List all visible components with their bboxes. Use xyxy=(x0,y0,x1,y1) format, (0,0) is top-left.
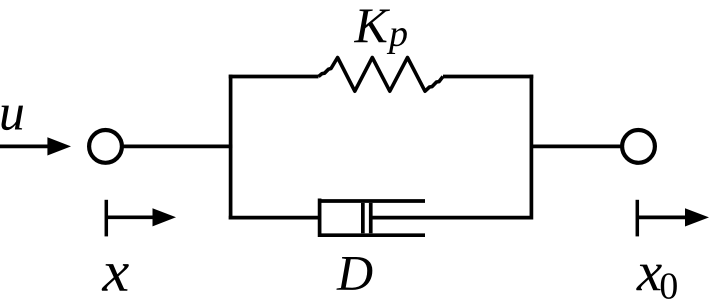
label x xyxy=(102,264,129,291)
displacement x0 arrow xyxy=(637,208,709,226)
displacement x0 reference tick xyxy=(636,200,640,237)
label D xyxy=(336,257,372,290)
displacement x reference tick xyxy=(105,200,109,237)
node: right attachment circle xyxy=(622,130,655,163)
wire: top-left lead xyxy=(229,75,319,79)
wire: left circle to frame xyxy=(123,145,232,149)
wire: top-right lead xyxy=(443,75,533,79)
label Kp xyxy=(354,9,407,54)
damper D: piston rod xyxy=(371,216,532,220)
wire: frame to right circle xyxy=(531,145,621,149)
wire: bottom-left lead xyxy=(229,216,320,220)
spring Kp xyxy=(319,58,444,92)
wire: left vertical rail xyxy=(229,75,233,220)
damper D: piston xyxy=(363,203,371,233)
input arrow u xyxy=(0,137,71,155)
node: left attachment circle xyxy=(89,130,122,163)
damper D: cylinder xyxy=(318,199,425,238)
label x0 xyxy=(636,265,677,299)
displacement x arrow xyxy=(106,208,176,226)
wire: right vertical rail xyxy=(530,75,534,220)
label u xyxy=(1,106,23,130)
